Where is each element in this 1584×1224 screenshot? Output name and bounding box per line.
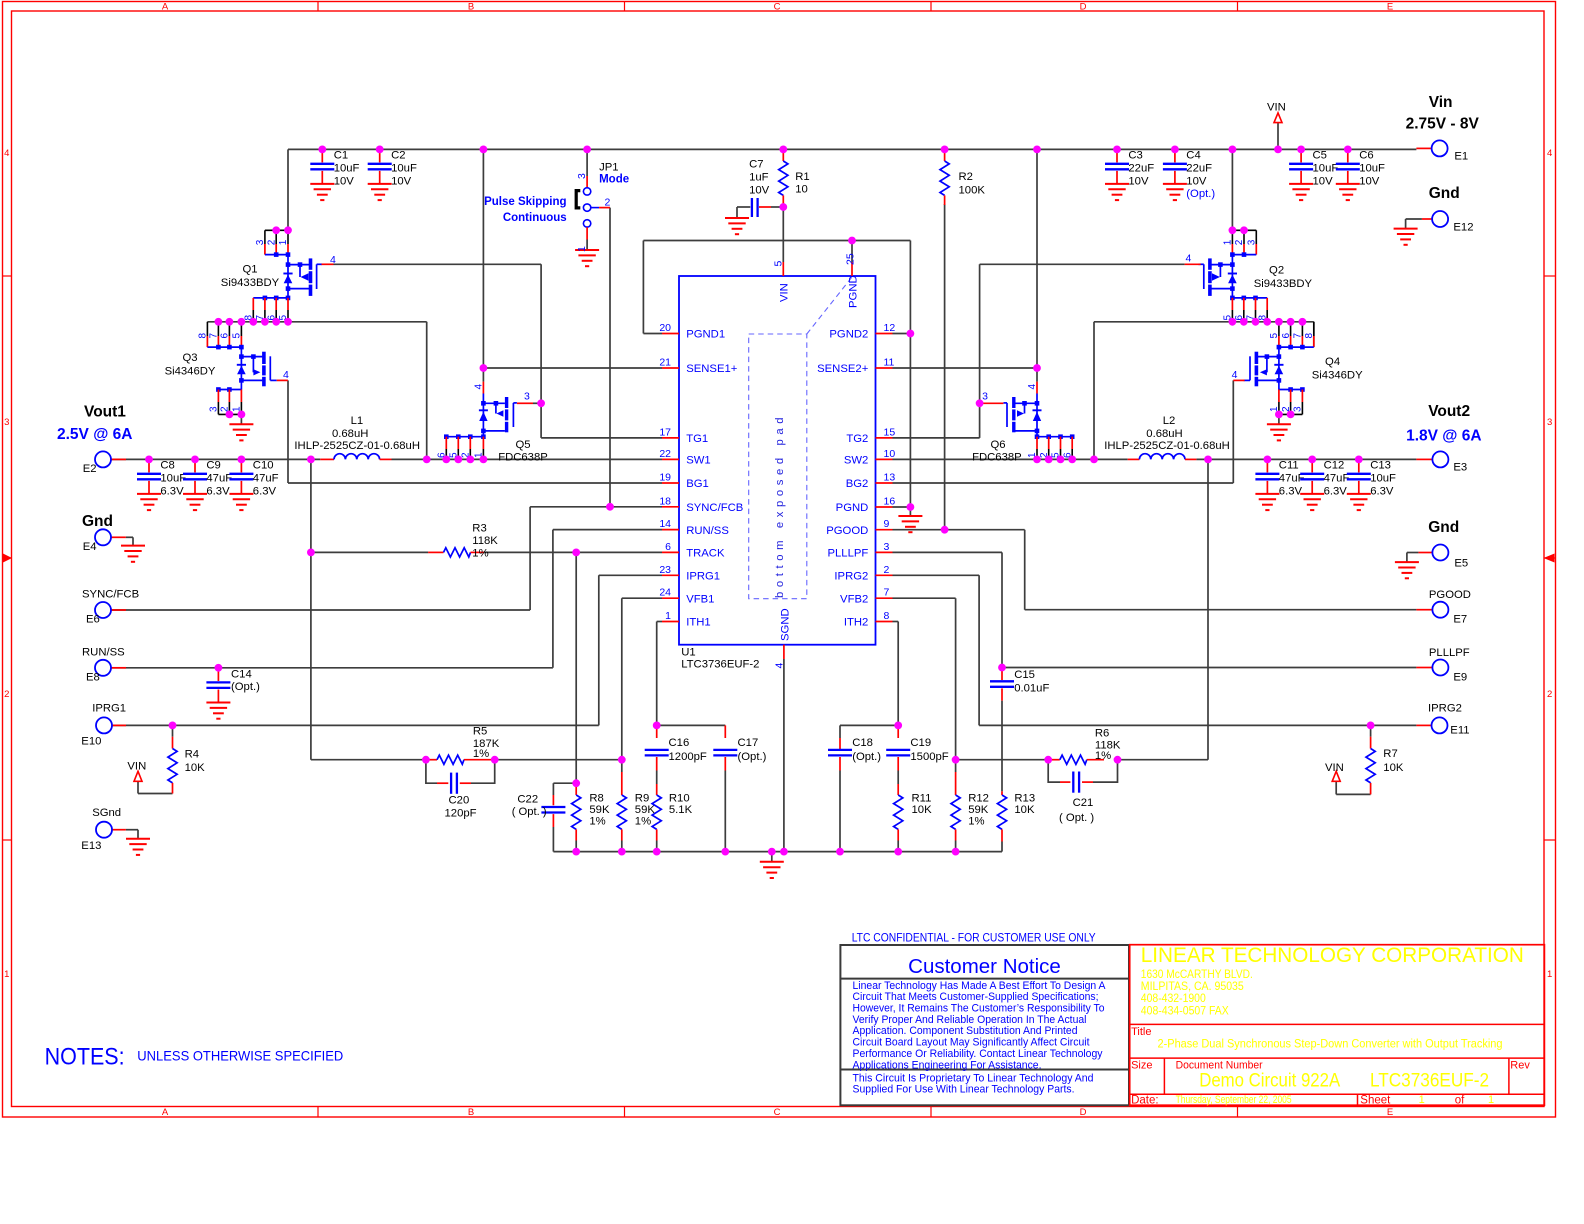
- svg-text:PGND: PGND: [847, 275, 859, 308]
- svg-text:10uF: 10uF: [334, 162, 360, 174]
- svg-text:Gnd: Gnd: [1428, 519, 1459, 536]
- svg-text:Title: Title: [1131, 1026, 1151, 1038]
- svg-text:Gnd: Gnd: [1429, 185, 1460, 202]
- svg-text:C3: C3: [1128, 150, 1142, 162]
- inductor L1 0.68uH: [294, 415, 420, 459]
- svg-text:25: 25: [845, 253, 857, 265]
- resistor R7 10K: [1366, 737, 1404, 795]
- svg-text:BG2: BG2: [846, 478, 869, 490]
- svg-text:VFB1: VFB1: [686, 593, 714, 605]
- svg-text:SGND: SGND: [779, 608, 791, 641]
- transistor Q6 FDC638P: [972, 368, 1074, 464]
- svg-text:(Opt.): (Opt.): [738, 751, 767, 763]
- svg-text:20: 20: [659, 322, 671, 334]
- svg-text:E: E: [1387, 1107, 1393, 1118]
- wire BG2: [893, 380, 1234, 483]
- svg-text:TG2: TG2: [846, 433, 868, 445]
- wire TG2: [893, 264, 1185, 438]
- svg-text:6.3V: 6.3V: [253, 486, 277, 498]
- svg-text:C17: C17: [738, 737, 759, 749]
- wire VFB2 net: [893, 598, 1049, 760]
- node TRACK R8/C22 junction: [572, 779, 580, 787]
- svg-text:0.68uH: 0.68uH: [332, 428, 368, 440]
- svg-text:22: 22: [659, 448, 671, 460]
- svg-text:C4: C4: [1186, 150, 1200, 162]
- svg-text:1: 1: [665, 610, 671, 622]
- ground at bus: [760, 862, 784, 878]
- node Vout2 terminal E3: [1406, 403, 1481, 473]
- resistor R1 10: [779, 149, 810, 207]
- svg-text:C9: C9: [206, 460, 220, 472]
- svg-text:23: 23: [659, 564, 671, 576]
- svg-text:10uF: 10uF: [1359, 162, 1385, 174]
- svg-text:E10: E10: [81, 735, 101, 747]
- svg-text:C11: C11: [1279, 460, 1299, 472]
- svg-text:SW1: SW1: [686, 455, 710, 467]
- wire VIN rail: [288, 149, 1416, 368]
- svg-text:C10: C10: [253, 460, 274, 472]
- svg-text:Q1: Q1: [242, 264, 257, 276]
- svg-text:10V: 10V: [1186, 175, 1207, 187]
- svg-text:1%: 1%: [472, 547, 488, 559]
- svg-text:47uF: 47uF: [253, 473, 279, 485]
- capacitor C20 120pF: [437, 773, 477, 820]
- svg-text:4: 4: [1232, 369, 1238, 381]
- svg-text:C15: C15: [1014, 669, 1035, 681]
- svg-text:11: 11: [884, 357, 895, 369]
- node Q3 source junctions: [226, 411, 246, 419]
- capacitor C5 10uF: [1289, 149, 1338, 200]
- wire ITH2 net: [840, 622, 898, 739]
- svg-text:D: D: [1080, 1107, 1087, 1118]
- svg-text:6.3V: 6.3V: [1279, 486, 1303, 498]
- svg-text:R7: R7: [1383, 748, 1397, 760]
- wire PLLLPF net: [893, 552, 1417, 667]
- svg-text:6: 6: [1281, 333, 1292, 339]
- node RUN/SS C14 junction: [215, 664, 223, 672]
- svg-text:R9: R9: [635, 793, 649, 805]
- node TG2/Q6 gate junction: [976, 399, 984, 407]
- svg-text:SW2: SW2: [844, 455, 868, 467]
- svg-text:10K: 10K: [185, 762, 206, 774]
- svg-text:C14: C14: [231, 669, 252, 681]
- svg-text:15: 15: [884, 426, 896, 438]
- svg-text:Date:: Date:: [1131, 1095, 1159, 1107]
- svg-text:PGND: PGND: [836, 502, 869, 514]
- wire R5 row: [311, 759, 622, 761]
- svg-text:1%: 1%: [1095, 750, 1111, 762]
- svg-text:10uF: 10uF: [1370, 473, 1396, 485]
- svg-text:LTC3736EUF-2: LTC3736EUF-2: [1370, 1071, 1489, 1092]
- svg-text:R13: R13: [1014, 793, 1035, 805]
- transistor Q4 Si4346DY: [1232, 322, 1363, 441]
- svg-text:4: 4: [1547, 148, 1552, 159]
- svg-text:E: E: [1387, 2, 1393, 13]
- svg-text:100K: 100K: [959, 185, 986, 197]
- svg-text:PGND1: PGND1: [686, 329, 725, 341]
- wire RUN/SS net: [111, 530, 662, 668]
- svg-text:( Opt. ): ( Opt. ): [1059, 812, 1094, 824]
- svg-text:UNLESS OTHERWISE SPECIFIED: UNLESS OTHERWISE SPECIFIED: [137, 1047, 343, 1063]
- svg-text:4: 4: [474, 384, 485, 390]
- svg-text:VIN: VIN: [779, 283, 791, 302]
- node SGnd terminal E13: [81, 807, 150, 855]
- svg-text:1.8V @ 6A: 1.8V @ 6A: [1406, 427, 1481, 444]
- svg-text:10uF: 10uF: [1313, 162, 1339, 174]
- capacitor C9 47uF: [183, 459, 232, 510]
- svg-text:3: 3: [576, 173, 588, 179]
- svg-text:10uF: 10uF: [391, 162, 417, 174]
- capacitor C18 (Opt.): [828, 737, 881, 852]
- svg-text:C: C: [774, 2, 781, 13]
- svg-text:10V: 10V: [1313, 175, 1334, 187]
- svg-text:2.75V - 8V: 2.75V - 8V: [1406, 116, 1480, 133]
- svg-text:R4: R4: [185, 748, 199, 760]
- svg-text:LTC CONFIDENTIAL - FOR CUSTOME: LTC CONFIDENTIAL - FOR CUSTOMER USE ONLY: [852, 932, 1096, 944]
- svg-text:Rev: Rev: [1510, 1059, 1530, 1071]
- svg-text:Document Number: Document Number: [1176, 1059, 1263, 1071]
- ground at PGND pin16: [898, 516, 922, 532]
- svg-text:R1: R1: [795, 171, 809, 183]
- svg-text:3: 3: [1247, 239, 1258, 245]
- svg-text:4: 4: [773, 663, 785, 669]
- svg-text:Si4346DY: Si4346DY: [1312, 370, 1363, 382]
- transistor Q3 Si4346DY: [165, 322, 289, 441]
- wire ground bus: [553, 827, 1002, 862]
- svg-text:Vout2: Vout2: [1428, 403, 1470, 420]
- svg-text:C21: C21: [1073, 797, 1094, 809]
- svg-text:3: 3: [209, 406, 220, 412]
- svg-text:6.3V: 6.3V: [206, 486, 230, 498]
- svg-text:1: 1: [1419, 1094, 1425, 1106]
- svg-text:18: 18: [659, 495, 671, 507]
- svg-text:E7: E7: [1453, 614, 1467, 626]
- svg-text:2.5V @ 6A: 2.5V @ 6A: [57, 426, 132, 443]
- node Vin terminal E1: [1406, 94, 1480, 163]
- svg-text:L1: L1: [351, 415, 364, 427]
- svg-text:IPRG1: IPRG1: [686, 571, 720, 583]
- svg-text:4: 4: [283, 369, 289, 381]
- capacitor C12 47uF: [1300, 459, 1349, 510]
- svg-text:Applications Engineering For A: Applications Engineering For Assistance.: [853, 1059, 1042, 1071]
- svg-text:E12: E12: [1453, 222, 1473, 234]
- node ITH1 junction: [653, 722, 661, 730]
- node SW2 rail junctions: [1229, 318, 1307, 326]
- svg-text:SGnd: SGnd: [92, 807, 121, 819]
- svg-text:L2: L2: [1163, 415, 1176, 427]
- svg-text:Sheet: Sheet: [1360, 1095, 1391, 1107]
- svg-text:RUN/SS: RUN/SS: [82, 646, 125, 658]
- capacitor C14 (Opt.): [206, 668, 260, 719]
- svg-text:Q6: Q6: [990, 439, 1005, 451]
- node PGOOD terminal E7: [1416, 589, 1471, 626]
- node ITH2 junction: [894, 722, 902, 730]
- wire PGOOD net: [893, 530, 1417, 610]
- node PGND net junctions: [848, 237, 914, 511]
- resistor R11 10K: [894, 784, 932, 852]
- svg-text:47uF: 47uF: [1324, 473, 1350, 485]
- svg-text:VIN: VIN: [127, 761, 146, 773]
- svg-text:C22: C22: [517, 794, 538, 806]
- svg-text:12: 12: [884, 322, 896, 334]
- svg-text:Gnd: Gnd: [82, 513, 113, 530]
- node Vout1 terminal E2: [57, 404, 132, 476]
- svg-text:3: 3: [1547, 417, 1552, 428]
- svg-text:1%: 1%: [968, 816, 984, 828]
- svg-text:Q2: Q2: [1269, 265, 1284, 277]
- capacitor C11 47uF: [1255, 459, 1304, 510]
- node VFB1 divider junctions: [422, 756, 626, 764]
- svg-text:C13: C13: [1370, 460, 1391, 472]
- resistor R4 10K: [168, 737, 205, 794]
- svg-text:SYNC/FCB: SYNC/FCB: [686, 502, 743, 514]
- svg-text:10K: 10K: [1014, 804, 1035, 816]
- capacitor C15 0.01uF: [990, 668, 1049, 792]
- svg-text:10: 10: [795, 184, 808, 196]
- node Gnd terminal E4: [82, 513, 145, 562]
- svg-text:U1: U1: [681, 647, 695, 659]
- wire VFB1 net: [622, 598, 662, 760]
- svg-text:Supplied For Use With Linear T: Supplied For Use With Linear Technology …: [853, 1084, 1075, 1096]
- node TRACK junctions: [307, 549, 580, 557]
- svg-text:10uF: 10uF: [160, 473, 186, 485]
- svg-text:IHLP-2525CZ-01-0.68uH: IHLP-2525CZ-01-0.68uH: [294, 440, 420, 452]
- svg-text:LTC3736EUF-2: LTC3736EUF-2: [681, 659, 759, 671]
- svg-text:SENSE1+: SENSE1+: [686, 363, 738, 375]
- svg-text:22uF: 22uF: [1186, 162, 1212, 174]
- svg-text:0.01uF: 0.01uF: [1014, 683, 1049, 695]
- node Vout1/SW1 row junctions: [145, 456, 487, 464]
- node R1/C7/VIN-pin junction: [779, 203, 787, 211]
- svg-text:A: A: [162, 1107, 169, 1118]
- capacitor C7 1uF: [725, 159, 771, 235]
- svg-text:4: 4: [1027, 384, 1038, 390]
- svg-text:2: 2: [884, 564, 890, 576]
- svg-text:7: 7: [1293, 333, 1304, 339]
- svg-text:3: 3: [884, 541, 890, 553]
- svg-text:C2: C2: [391, 150, 405, 162]
- svg-text:ITH1: ITH1: [686, 617, 710, 629]
- svg-text:4: 4: [330, 254, 336, 266]
- wire Vout2 feedback drop: [1207, 459, 1209, 759]
- svg-text:( Opt. ): ( Opt. ): [512, 806, 547, 818]
- node Gnd terminal E12: [1394, 185, 1474, 245]
- svg-text:5: 5: [232, 333, 243, 339]
- svg-text:5.1K: 5.1K: [669, 804, 693, 816]
- node Q4 source junctions: [1275, 411, 1295, 419]
- node SYNC/FCB terminal E6: [82, 589, 139, 626]
- svg-text:IPRG2: IPRG2: [1428, 702, 1462, 714]
- svg-text:R10: R10: [669, 793, 690, 805]
- svg-text:1%: 1%: [473, 748, 489, 760]
- svg-text:4: 4: [1186, 253, 1192, 265]
- svg-text:However, It Remains The Custom: However, It Remains The Customer’s Respo…: [853, 1003, 1105, 1015]
- resistor R10 5.1K: [652, 784, 693, 852]
- svg-text:4: 4: [4, 148, 9, 159]
- wire R2 to PGOOD: [944, 204, 946, 530]
- svg-text:E13: E13: [81, 840, 101, 852]
- resistor R2 100K: [940, 149, 985, 205]
- note title block: [1130, 944, 1545, 1107]
- svg-text:Pulse Skipping: Pulse Skipping: [484, 196, 566, 208]
- svg-text:C1: C1: [334, 150, 348, 162]
- svg-text:Q3: Q3: [182, 352, 197, 364]
- svg-text:A: A: [162, 2, 169, 13]
- node Q2 source junctions: [1229, 226, 1248, 234]
- svg-text:2: 2: [1234, 239, 1245, 245]
- svg-text:TG1: TG1: [686, 433, 708, 445]
- capacitor C8 10uF: [137, 459, 186, 510]
- svg-text:Circuit Board Layout May Signi: Circuit Board Layout May Significantly A…: [853, 1037, 1090, 1049]
- svg-text:Size: Size: [1131, 1059, 1152, 1071]
- svg-text:FDC638P: FDC638P: [972, 452, 1022, 464]
- svg-text:E2: E2: [83, 463, 97, 475]
- svg-text:21: 21: [659, 357, 671, 369]
- svg-text:47uF: 47uF: [206, 473, 232, 485]
- svg-text:Performance Or Reliability. Co: Performance Or Reliability. Contact Line…: [853, 1048, 1104, 1060]
- resistor R12 59K: [951, 760, 989, 852]
- svg-text:Si9433BDY: Si9433BDY: [1254, 278, 1313, 290]
- svg-text:Si9433BDY: Si9433BDY: [221, 277, 280, 289]
- svg-text:C5: C5: [1313, 150, 1327, 162]
- capacitor C13 10uF: [1347, 459, 1396, 510]
- svg-text:Vout1: Vout1: [84, 404, 126, 421]
- svg-text:1: 1: [1488, 1094, 1494, 1106]
- svg-text:19: 19: [659, 472, 671, 484]
- capacitor C4 22uF (Opt.): [1163, 149, 1216, 200]
- svg-text:VIN: VIN: [1267, 101, 1286, 113]
- wire SW2/L2 row: [893, 458, 1417, 460]
- wire SGND drop: [783, 659, 785, 852]
- svg-text:22uF: 22uF: [1128, 162, 1154, 174]
- svg-text:10V: 10V: [1128, 175, 1149, 187]
- svg-text:R2: R2: [959, 171, 973, 183]
- wire BG1: [288, 380, 662, 483]
- node Vout2/SW2 row junctions: [1033, 456, 1363, 464]
- svg-text:408-434-0507 FAX: 408-434-0507 FAX: [1141, 1003, 1229, 1017]
- svg-text:3: 3: [524, 391, 530, 403]
- node PGOOD R2 junction: [941, 526, 949, 534]
- svg-text:R11: R11: [912, 793, 932, 805]
- wire TRACK net: [311, 552, 662, 783]
- node TG1/Q5 gate junction: [537, 399, 545, 407]
- capacitor C22 (Opt.): [512, 794, 566, 827]
- node SW1 rail junctions: [215, 318, 292, 326]
- svg-text:bottom exposed pad: bottom exposed pad: [774, 413, 786, 598]
- svg-text:PGOOD: PGOOD: [1429, 589, 1471, 601]
- svg-text:6.3V: 6.3V: [1324, 486, 1348, 498]
- svg-text:10K: 10K: [912, 804, 933, 816]
- jumper JP1 Mode: [484, 161, 629, 266]
- svg-text:C6: C6: [1359, 150, 1373, 162]
- svg-text:SENSE2+: SENSE2+: [817, 363, 869, 375]
- resistor R3 118K: [444, 523, 499, 560]
- svg-text:of: of: [1455, 1095, 1465, 1107]
- svg-text:1: 1: [4, 969, 9, 980]
- svg-text:1%: 1%: [635, 816, 651, 828]
- svg-text:B: B: [468, 2, 474, 13]
- wire IPRG1 net: [111, 575, 662, 725]
- wire PGND top rail: [643, 241, 910, 517]
- svg-text:E11: E11: [1450, 724, 1469, 736]
- svg-text:R12: R12: [968, 793, 989, 805]
- capacitor C2 10uF: [368, 149, 417, 200]
- svg-text:NOTES:: NOTES:: [45, 1044, 125, 1071]
- capacitor C10 47uF: [229, 459, 278, 510]
- node ground bus junctions: [572, 848, 959, 856]
- svg-text:Si4346DY: Si4346DY: [165, 366, 216, 378]
- wire ITH1 net: [657, 622, 726, 726]
- capacitor C21 (Opt.): [1059, 772, 1094, 825]
- wire Vout1 feedback drop: [310, 459, 312, 759]
- wire SW1 rail: [207, 322, 426, 460]
- wire C22/R8 top rail: [553, 783, 576, 795]
- svg-text:FDC638P: FDC638P: [498, 452, 548, 464]
- svg-text:(Opt.): (Opt.): [852, 751, 881, 763]
- wire SENSE2+: [893, 367, 1038, 369]
- capacitor C16 1200pF: [645, 725, 707, 784]
- node PLLLPF C15 junction: [998, 664, 1006, 672]
- svg-text:This Circuit Is Proprietary To: This Circuit Is Proprietary To Linear Te…: [853, 1072, 1094, 1084]
- svg-text:Customer Notice: Customer Notice: [908, 955, 1061, 978]
- wire R1/C7 node to VIN pin: [737, 207, 783, 262]
- power VIN arrow R4: [127, 761, 146, 782]
- svg-text:E9: E9: [1453, 672, 1467, 684]
- svg-text:Thursday, September 22, 2005: Thursday, September 22, 2005: [1176, 1094, 1292, 1106]
- svg-text:VFB2: VFB2: [840, 593, 868, 605]
- node Gnd terminal E5: [1395, 519, 1468, 579]
- svg-text:120pF: 120pF: [445, 808, 477, 820]
- svg-text:C: C: [774, 1107, 781, 1118]
- svg-text:8: 8: [1304, 333, 1315, 339]
- svg-text:1200pF: 1200pF: [669, 751, 707, 763]
- op-amp U1 LTC3736EUF-2: [659, 253, 895, 670]
- wire R4 to VIN: [138, 725, 173, 793]
- svg-text:PGND2: PGND2: [829, 329, 868, 341]
- wire C21 loop: [1048, 760, 1117, 782]
- svg-text:10V: 10V: [334, 175, 355, 187]
- svg-text:1: 1: [576, 246, 588, 252]
- note NOTES: [45, 1044, 344, 1071]
- svg-text:Q5: Q5: [515, 439, 530, 451]
- svg-text:PLLLPF: PLLLPF: [827, 548, 868, 560]
- node SYNC/FCB junction: [606, 503, 614, 511]
- node IPRG1 R4 junction: [169, 722, 177, 730]
- svg-text:6: 6: [665, 541, 671, 553]
- node SENSE1+ junction: [480, 364, 488, 372]
- capacitor C17 (Opt.): [713, 725, 766, 851]
- svg-text:59K: 59K: [589, 804, 610, 816]
- capacitor C3 22uF: [1105, 149, 1154, 200]
- svg-text:1500pF: 1500pF: [910, 751, 948, 763]
- wire SENSE1+: [483, 367, 662, 369]
- svg-text:10V: 10V: [1359, 175, 1380, 187]
- transistor Q2 Si9433BDY: [1185, 230, 1313, 321]
- power VIN arrow R7: [1325, 762, 1344, 782]
- svg-text:ITH2: ITH2: [844, 617, 868, 629]
- svg-text:5: 5: [1269, 333, 1280, 339]
- svg-text:5: 5: [773, 261, 785, 267]
- svg-text:1: 1: [278, 239, 289, 245]
- capacitor C19 1500pF: [886, 725, 949, 784]
- node RUN/SS terminal E8: [82, 646, 126, 683]
- resistor R6 118K: [1048, 727, 1121, 764]
- svg-text:VIN: VIN: [1325, 762, 1344, 774]
- svg-text:IPRG1: IPRG1: [92, 702, 126, 714]
- svg-text:C12: C12: [1324, 460, 1345, 472]
- svg-text:8: 8: [198, 333, 209, 339]
- node PLLLPF terminal E9: [1416, 647, 1469, 684]
